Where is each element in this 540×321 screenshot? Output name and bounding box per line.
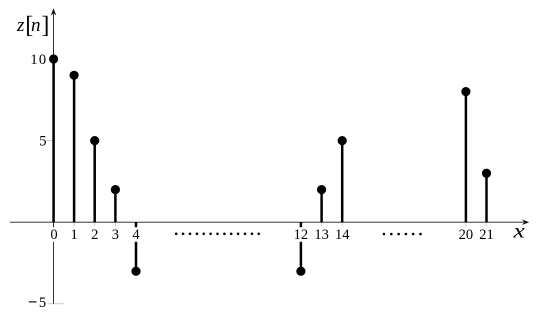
svg-text:5: 5	[39, 134, 46, 150]
svg-text:14: 14	[335, 227, 350, 243]
svg-text:n: n	[31, 15, 41, 36]
svg-text:4: 4	[132, 227, 140, 243]
svg-text:13: 13	[314, 227, 329, 243]
svg-text:0: 0	[50, 227, 57, 243]
svg-text:5: 5	[39, 295, 46, 311]
svg-text:10: 10	[30, 52, 47, 68]
svg-text:12: 12	[294, 227, 309, 243]
svg-text:20: 20	[459, 227, 474, 243]
svg-text:21: 21	[479, 227, 494, 243]
svg-text:z: z	[16, 15, 25, 36]
svg-text:2: 2	[91, 227, 98, 243]
svg-text:x: x	[512, 219, 525, 243]
svg-text:1: 1	[70, 227, 77, 243]
svg-text:]: ]	[41, 13, 49, 39]
svg-text:3: 3	[112, 227, 119, 243]
